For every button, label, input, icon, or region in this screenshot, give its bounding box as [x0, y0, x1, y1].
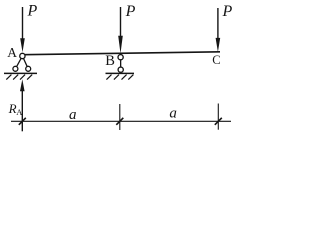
svg-text:a: a: [169, 106, 177, 122]
dimension tick (middle): [119, 104, 121, 130]
dimension line: [11, 120, 231, 122]
svg-text:B: B: [105, 53, 115, 69]
dimension slash at left crossing: [19, 118, 26, 125]
dimension slash at right crossing: [215, 118, 222, 125]
svg-text:P: P: [27, 3, 38, 20]
support A legs: [15, 56, 28, 69]
dimension tick (right): [217, 104, 219, 130]
force P at B (arrow): [118, 7, 123, 54]
svg-text:P: P: [222, 3, 233, 20]
svg-text:C: C: [212, 53, 220, 67]
reaction R_A (upward arrow): [20, 79, 25, 131]
ground line at A: [4, 72, 37, 74]
svg-text:A: A: [7, 45, 17, 60]
force P at C (arrow): [216, 8, 221, 52]
ground hatching at A: [6, 75, 32, 80]
support B link: [120, 57, 122, 69]
svg-text:R: R: [8, 101, 17, 116]
support A right roller: [26, 66, 31, 71]
svg-text:A: A: [16, 107, 23, 117]
force P at A (arrow): [20, 7, 25, 52]
support B roller: [118, 67, 123, 72]
support A left roller: [13, 66, 18, 71]
svg-text:P: P: [125, 3, 136, 20]
ground hatching at B: [106, 75, 133, 80]
svg-text:a: a: [69, 107, 77, 123]
support A pin circle: [20, 53, 25, 58]
support B pin circle: [118, 55, 123, 60]
beam A-C: [23, 52, 220, 55]
dimension slash at middle crossing: [116, 118, 123, 125]
ground line at B: [106, 72, 135, 74]
